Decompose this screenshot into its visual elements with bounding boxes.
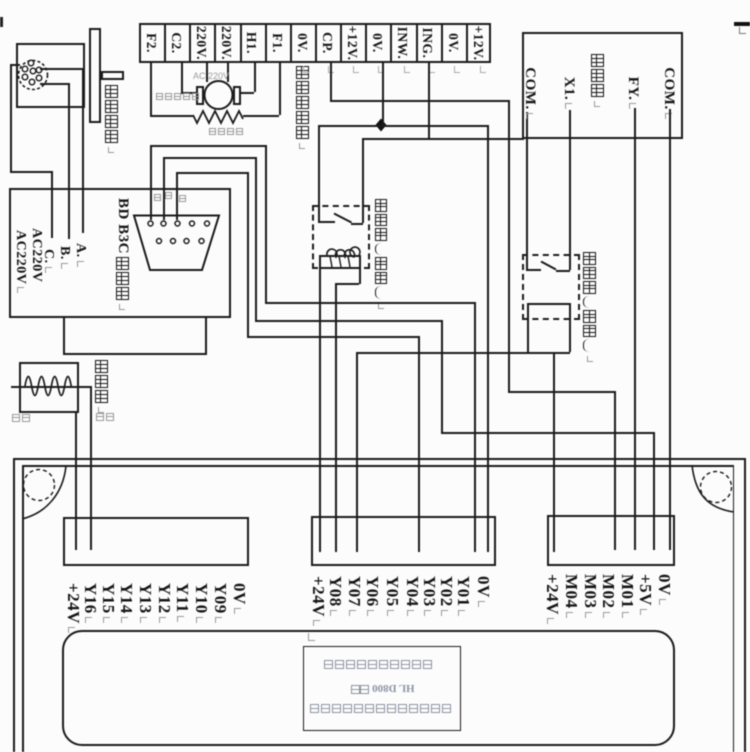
DB9 wire1 top run	[150, 145, 265, 147]
PLC pin label +5V (right strip)	[635, 574, 655, 615]
DB9 wire3 pin riser	[176, 172, 178, 220]
driver AC220V label 2	[12, 230, 28, 293]
buzzer coil sine wave	[25, 377, 71, 396]
label 变频器 (inverter)	[591, 54, 604, 107]
gray return marks under strip cells	[303, 66, 309, 73]
wire C horizontal	[10, 171, 52, 173]
wire A horizontal	[40, 68, 83, 70]
strip divider 1	[164, 23, 166, 63]
gray return mark above text box	[308, 633, 315, 641]
label 继电器(常开) relay K2	[583, 252, 596, 362]
DB9 wire2 pin riser	[163, 157, 165, 221]
wire C drop to driver C	[51, 171, 53, 238]
PLC pin label +24V (right strip)	[542, 574, 562, 624]
motor brush box left	[196, 86, 204, 105]
strip divider 13	[466, 23, 468, 63]
PLC CPU rounded module	[62, 630, 675, 746]
gray note (红)	[12, 414, 30, 422]
PLC pin label Y10 (left strip)	[191, 583, 211, 623]
gray pin note 1	[154, 194, 161, 201]
wire A drop to driver A	[82, 68, 84, 233]
PLC pin label Y09 (left strip)	[210, 583, 230, 623]
PLC board outer edge	[13, 458, 746, 460]
PLC left output terminal strip	[63, 517, 249, 567]
wire buzzer to PLC Y16	[90, 386, 92, 550]
driver pedestal	[63, 318, 65, 354]
wire K2 coil run to Y07/+24V	[356, 352, 571, 354]
DB9 connector trapezoid	[134, 216, 219, 271]
PLC board inner edge	[22, 465, 734, 467]
terminal label 0V.	[369, 24, 385, 62]
buzzer through lead	[11, 386, 91, 388]
PLC pin label Y15 (left strip)	[98, 583, 118, 623]
wire inverter FY to PLC M01	[634, 108, 636, 550]
wire K1 coil to PLC Y08	[335, 283, 337, 552]
PLC middle output terminal strip	[311, 516, 496, 566]
strip divider 11	[416, 23, 418, 63]
PLC pin label +24V (left strip)	[63, 583, 83, 633]
relay K2 coil left lead below box	[527, 319, 529, 352]
PLC pin label Y03 (mid strip)	[419, 576, 439, 616]
gray note (黑)	[96, 413, 114, 421]
PLC pin label Y07 (mid strip)	[344, 576, 364, 616]
wire CP drop	[330, 63, 332, 100]
corner arc top-right	[692, 465, 734, 512]
PLC pin label Y01 (mid strip)	[453, 576, 473, 616]
wire to PLC right +24V	[553, 352, 555, 553]
wire F2 drop	[150, 63, 152, 115]
scan mark top-left edge	[0, 17, 3, 27]
DB9 wire3 mid drop	[247, 172, 249, 336]
gray pin note 2	[165, 192, 172, 199]
inverter COM right	[660, 62, 677, 124]
stepper motor body bar	[89, 28, 101, 123]
relay K1 contact right stub	[351, 223, 363, 225]
wire ING drop	[428, 63, 430, 138]
wire F1 drop	[279, 63, 281, 115]
terminal label F1.	[269, 24, 285, 62]
wire inverter COM to PLC 0V	[669, 109, 671, 550]
wire C vertical left	[10, 64, 12, 171]
driver name BD B3C	[114, 198, 131, 254]
DB9 wire2 mid drop	[255, 157, 257, 320]
strip divider 3	[214, 23, 216, 63]
wire inverter X1 to K2 contact	[569, 110, 571, 270]
strip divider 9	[365, 23, 367, 63]
DB9 wire2 second drop	[441, 320, 443, 433]
PLC pin label 0V (right strip)	[654, 574, 674, 605]
gray rotated note line1	[324, 660, 432, 669]
wire H1 drop	[254, 63, 256, 92]
PLC pin label 0V (left strip)	[229, 583, 249, 614]
PLC pin label Y13 (left strip)	[135, 583, 155, 623]
DC motor circle	[205, 81, 233, 109]
gray note (电阻)	[209, 128, 243, 135]
motor brush box right	[233, 86, 241, 105]
wire H1 to motor brush	[241, 92, 254, 94]
PLC pin label M02 (right strip)	[598, 574, 618, 618]
terminal label +12V.	[470, 24, 486, 62]
label 步进电机 (stepper motor)	[105, 85, 118, 153]
wire 0V to relay K1 contact	[318, 125, 320, 222]
wire 0V drop to PLC 0V	[487, 125, 489, 552]
PLC pin label M03 (right strip)	[580, 574, 600, 618]
PLC info text box	[303, 646, 461, 731]
wire inverter COM to K2 contact	[526, 112, 528, 269]
relay K2 coil right lead below box	[569, 319, 571, 352]
gray rotated note line2: HL D800	[345, 682, 421, 694]
relay K2 contact right stub	[556, 270, 570, 272]
PLC pin label Y12 (left strip)	[154, 583, 174, 623]
PLC pin label M04 (right strip)	[561, 574, 581, 618]
terminal label INW.	[394, 24, 410, 62]
strip divider 6	[290, 23, 292, 63]
driver box BD B3C	[9, 188, 231, 318]
inverter COM left	[521, 62, 538, 124]
stepper motor shaft tab	[101, 71, 124, 80]
wire 0V drop to junction	[382, 63, 384, 125]
resistor zigzag	[193, 111, 243, 123]
wire ING horizontal to inverter COM	[362, 138, 524, 140]
label 直流调速板 (DC speed board)	[296, 66, 309, 149]
driver terminal A	[72, 243, 88, 267]
junction diamond on 0V net	[376, 119, 387, 132]
wire 220V stub 1	[206, 63, 208, 82]
PLC right terminal strip	[547, 515, 675, 566]
wire CP vertical mid	[508, 100, 510, 391]
gray note AC 220V	[193, 71, 229, 81]
PLC pin label +24V (mid strip)	[308, 576, 328, 626]
wire B drop to driver B	[68, 83, 70, 239]
terminal label +12V.	[344, 24, 360, 62]
wire CP horizontal to M02	[508, 391, 614, 393]
gray rotated note line3	[310, 704, 451, 713]
DB9 wire3 top run	[176, 172, 247, 174]
driver AC220V label 1	[28, 228, 44, 282]
label 驱动器 (driver)	[116, 257, 129, 310]
PLC pin label Y11 (left strip)	[172, 583, 192, 622]
relay K2 coil open rect	[527, 303, 570, 305]
corner arc top-left	[22, 466, 66, 519]
strip divider 12	[441, 23, 443, 63]
DB9 wire1 mid drop	[265, 145, 267, 302]
terminal strip outline	[139, 23, 491, 63]
relay K1 contact left stub	[318, 221, 335, 223]
relay K1 dashed outline	[312, 205, 371, 269]
strip divider 4	[240, 23, 242, 63]
relay K2 dashed outline	[522, 254, 580, 320]
DB9 wire2 run to right strip	[441, 432, 653, 434]
scan artifact top-right: black bar	[734, 22, 750, 26]
terminal label ING.	[419, 24, 435, 62]
wire 220V stub 2	[227, 63, 229, 82]
inverter FY	[624, 62, 641, 124]
strip divider 2	[189, 23, 191, 63]
stepper connector outline box	[16, 43, 85, 108]
label 蜂鸣器 (buzzer)	[95, 360, 108, 413]
PLC pin label Y02 (mid strip)	[436, 576, 456, 616]
DB9 wire3 drop to Y04	[418, 336, 420, 552]
DB9 pins	[148, 221, 210, 244]
strip divider 8	[340, 23, 342, 63]
DB9 wire2 drop to M01	[653, 432, 655, 550]
PLC mounting hole top-right	[701, 472, 732, 503]
DB9 wire2 long run	[255, 320, 441, 322]
PLC pin label M01 (right strip)	[617, 574, 637, 618]
PLC pin label 0V (mid strip)	[473, 576, 493, 607]
terminal label H1.	[243, 24, 259, 62]
label 继电器(常开) relay K1	[375, 199, 388, 309]
wire K1 coil to PLC +24V	[319, 269, 321, 552]
DB9 wire1 pin riser	[150, 145, 152, 220]
terminal label C2.	[168, 24, 184, 62]
strip divider 7	[315, 23, 317, 63]
wire: connector left pin	[10, 64, 20, 66]
DB9 wire1 drop to Y01	[474, 302, 476, 553]
strip divider 5	[265, 23, 267, 63]
relay K1 coil lead jog	[335, 283, 359, 285]
wire C2 drop	[181, 63, 183, 92]
PLC pin label Y16 (left strip)	[80, 583, 100, 623]
strip divider 10	[390, 23, 392, 63]
inverter (变频器) box	[522, 32, 683, 139]
buzzer box	[19, 362, 79, 413]
PLC pin label Y14 (left strip)	[116, 583, 136, 623]
wire to PLC Y07	[356, 352, 358, 553]
wire B horizontal	[40, 83, 69, 85]
relay K1 coil box	[319, 255, 361, 269]
DB9 wire3 long run	[247, 336, 418, 338]
relay K2 contact left stub	[526, 269, 541, 271]
relay K1 coil right lead down	[359, 269, 361, 284]
terminal label 220V.	[218, 24, 234, 62]
wire C2 to motor brush	[181, 92, 196, 94]
PLC pin label Y04 (mid strip)	[402, 576, 422, 616]
stepper motor connector circle	[19, 61, 48, 90]
relay K2 contact blade	[541, 262, 556, 270]
terminal label F2.	[143, 24, 159, 62]
driver terminal B	[56, 246, 72, 269]
PLC pin label Y06 (mid strip)	[362, 576, 382, 616]
inverter X1	[560, 62, 577, 124]
wire CP drop to PLC M02	[614, 391, 616, 550]
terminal label 220V.	[193, 24, 209, 62]
gray note (直流电机)	[156, 93, 199, 100]
terminal label CP.	[319, 24, 335, 62]
wire ING to relay K1 contact right	[362, 138, 364, 223]
wire 0V horizontal distribution	[318, 125, 488, 127]
DB9 wire2 top run	[163, 157, 256, 159]
connector pins	[22, 60, 42, 85]
relay K1 coil loops	[327, 247, 360, 257]
PLC pin label Y05 (mid strip)	[382, 576, 402, 616]
terminal label 0V.	[445, 24, 461, 62]
wire resistor to F1	[243, 115, 279, 117]
terminal label 0V.	[294, 24, 310, 62]
DB9 wire1 long run	[265, 302, 474, 304]
PLC mounting hole top-left	[24, 470, 55, 501]
relay K1 contact blade	[334, 214, 352, 223]
wire F2 bottom horizontal to resistor	[150, 115, 194, 117]
wire CP horizontal run	[330, 100, 508, 102]
gray pin note 3	[179, 195, 186, 202]
PLC pin label Y08 (mid strip)	[325, 576, 345, 616]
wire buzzer to PLC +24V	[75, 411, 77, 550]
driver terminal C	[40, 249, 56, 273]
